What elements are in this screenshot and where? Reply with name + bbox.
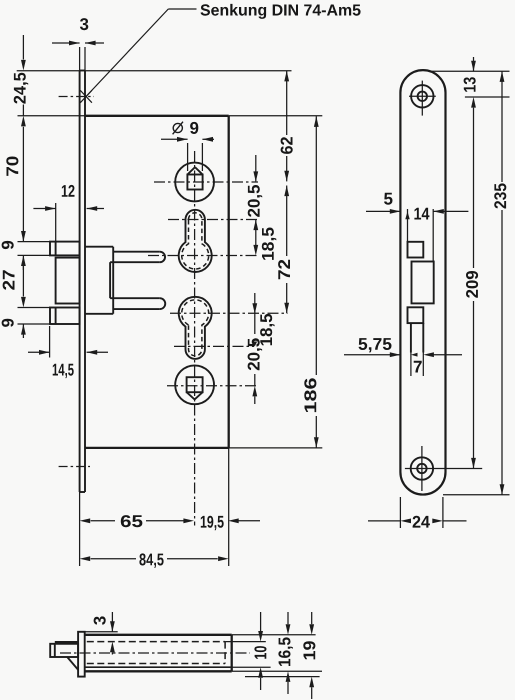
extension line plate top bbox=[430, 71, 509, 97]
dimension 9 (bottom flange) bbox=[22, 324, 24, 338]
cylinder hole 1 hidden contour (dashed) bbox=[182, 213, 209, 269]
centerline bottom view bbox=[60, 652, 250, 654]
follower hole (top): circle with square spindle hole bbox=[175, 163, 214, 202]
hidden cavity lines (dashed) bbox=[87, 642, 225, 664]
faceplate plate outline (rounded ends) bbox=[400, 70, 445, 494]
cylinder hole 2 hidden contour (dashed) bbox=[182, 300, 209, 356]
dimension 186 bbox=[315, 116, 317, 448]
dimension 10 bbox=[260, 612, 262, 690]
dimension Ø9 (spindle hole) bbox=[173, 122, 183, 135]
extension line plate bottom bbox=[443, 494, 510, 496]
dimension 14,5 bbox=[28, 326, 108, 358]
dimension 19 bbox=[311, 612, 313, 699]
lock case outline bbox=[86, 116, 229, 448]
faceplate (edge view, vertical strip) bbox=[80, 71, 85, 493]
countersunk screw hole centerlines on faceplate bbox=[59, 97, 94, 467]
dimension 27 (latch middle) bbox=[22, 266, 24, 297]
profile cylinder hole 2 (narrow end down) bbox=[179, 297, 212, 359]
dimension 3 (case wall) bbox=[111, 612, 113, 655]
dimension 235 bbox=[501, 71, 503, 495]
horizontal centerlines of holes bbox=[148, 182, 288, 386]
dimension 20,5 (lower) bbox=[254, 374, 256, 404]
dimension 72 bbox=[286, 186, 288, 314]
profile cylinder hole 1 (narrow end up) bbox=[179, 210, 212, 272]
label Senkung DIN 74-Am5 bbox=[201, 4, 361, 19]
dimension 18,5 (lower) bbox=[254, 293, 256, 334]
dimension 65 / 19,5 bbox=[80, 448, 260, 566]
dimension 3 (faceplate thickness, top) bbox=[52, 43, 104, 71]
dimension 5,75 / 7 bbox=[344, 353, 462, 377]
dimension 24,5 bbox=[22, 35, 24, 116]
latch bolt tip bbox=[50, 642, 78, 670]
bottom screw hole bbox=[411, 457, 433, 479]
follower hole (bottom): circle with square spindle hole bbox=[175, 365, 214, 404]
vertical centerline through holes bbox=[194, 151, 196, 526]
faceplate (section bar) bbox=[78, 632, 85, 677]
extension line faceplate top (for 24,5 and 62) bbox=[17, 70, 292, 72]
leader line "Senkung DIN 74-Am5" bbox=[80, 9, 196, 103]
dimension 20,5 (upper) bbox=[255, 155, 257, 246]
top screw hole bbox=[411, 85, 433, 107]
dimension 9 (top flange) bbox=[22, 255, 24, 270]
latch bolt tail and fork (right of faceplate) bbox=[85, 247, 165, 314]
extension lines (right of case) bbox=[85, 632, 322, 677]
dimension 16,5 bbox=[287, 612, 289, 694]
dimension 12 bbox=[33, 203, 104, 241]
dimension 62 bbox=[286, 71, 288, 182]
lock case (bottom view) bbox=[85, 635, 232, 672]
dimension 18,5 (upper) bbox=[253, 245, 258, 256]
extension line case bottom bbox=[229, 447, 323, 449]
latch bolt head (left of faceplate) bbox=[50, 242, 80, 324]
dimension 70 bbox=[22, 127, 24, 242]
extension line case top bbox=[18, 115, 323, 117]
dimension 5 / 14 bbox=[366, 209, 468, 262]
dimension 84,5 bbox=[91, 558, 218, 560]
dimension 209 bbox=[473, 108, 475, 469]
dimension 24 bbox=[368, 497, 467, 528]
latch bolt boxes (side view) bbox=[408, 242, 434, 353]
extension lines latch flanges (left) bbox=[18, 242, 54, 324]
dimension 13 bbox=[473, 57, 475, 71]
